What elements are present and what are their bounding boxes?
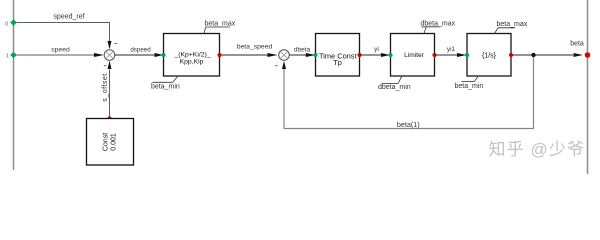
svg-text:dbeta_max: dbeta_max [421, 20, 456, 27]
svg-text:Kpp,Kip: Kpp,Kip [180, 58, 204, 65]
svg-text:dbeta_min: dbeta_min [378, 84, 411, 91]
svg-text:{1/s}: {1/s} [482, 52, 497, 59]
svg-text:beta: beta [570, 41, 584, 48]
svg-text:s_offset: s_offset [102, 73, 109, 101]
svg-text:beta_min: beta_min [151, 83, 180, 90]
svg-text:1: 1 [6, 53, 9, 59]
svg-text:yi1: yi1 [447, 46, 456, 53]
svg-text:speed: speed [51, 47, 70, 54]
svg-text:Const: Const [103, 133, 110, 151]
svg-text:dbeta: dbeta [294, 46, 311, 53]
svg-text:0: 0 [5, 21, 8, 27]
svg-text:知乎 @少爷: 知乎 @少爷 [489, 140, 586, 159]
svg-text:speed_ref: speed_ref [53, 13, 84, 20]
svg-text:beta_max: beta_max [205, 21, 236, 28]
svg-text:yi: yi [374, 46, 379, 53]
svg-text:dspeed: dspeed [130, 46, 151, 53]
svg-text:beta_speed: beta_speed [237, 43, 273, 50]
svg-text:Limiter: Limiter [404, 52, 425, 59]
svg-text:beta_max: beta_max [497, 21, 528, 28]
svg-text:beta_min: beta_min [455, 83, 484, 90]
svg-text:0.001: 0.001 [111, 133, 118, 151]
svg-text:Tp: Tp [333, 58, 342, 67]
svg-text:beta(1): beta(1) [397, 120, 420, 129]
